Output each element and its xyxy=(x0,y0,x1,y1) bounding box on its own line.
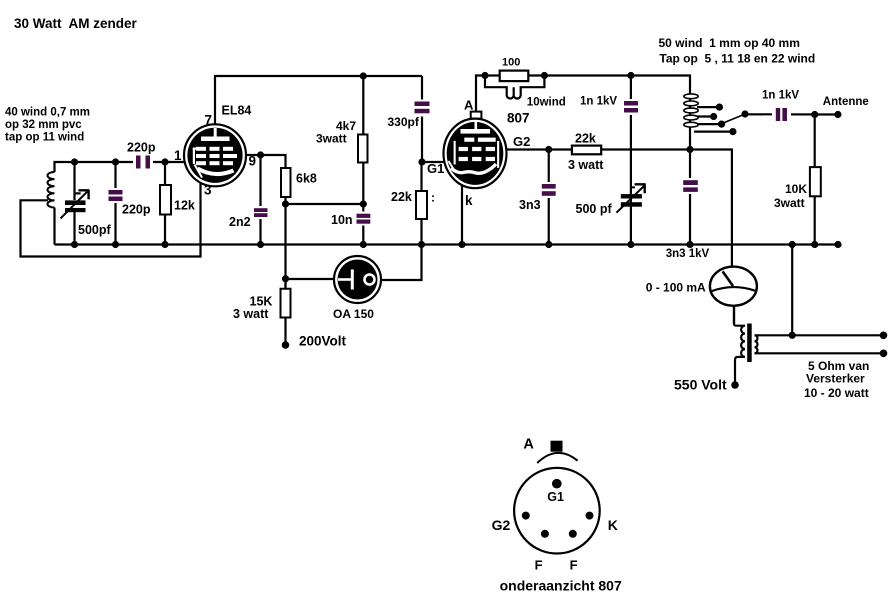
svg-text:F: F xyxy=(570,558,578,573)
svg-text:k: k xyxy=(465,193,473,208)
inductor L3 tank coil xyxy=(684,93,698,150)
wire: G2 line through 22k to tank bottom xyxy=(549,150,732,271)
capacitor C7 1n 1kV (plate bypass) xyxy=(630,76,632,196)
resistor R8 22k 3 watt xyxy=(572,146,601,155)
node: 550 Volt supply terminal xyxy=(731,381,739,389)
svg-text:7: 7 xyxy=(205,113,213,128)
capacitor C9 1n 1kV antenna coupling xyxy=(745,113,838,115)
key square xyxy=(551,441,563,452)
svg-text:3n3 1kV: 3n3 1kV xyxy=(666,248,710,260)
wire: 807 cathode k xyxy=(461,186,463,245)
switch SW1 tap selector xyxy=(723,114,745,123)
svg-text:3n3: 3n3 xyxy=(519,198,541,212)
svg-text:Versterker: Versterker xyxy=(806,372,865,386)
svg-text:2n2: 2n2 xyxy=(229,215,251,229)
svg-text:1n 1kV: 1n 1kV xyxy=(580,96,617,108)
svg-text:onderaanzicht 807: onderaanzicht 807 xyxy=(500,578,622,594)
base circle xyxy=(514,468,600,554)
wire: left tank bottom vertical xyxy=(53,208,55,245)
svg-text:10wind: 10wind xyxy=(527,97,566,109)
svg-text:9: 9 xyxy=(249,154,257,169)
svg-text:6k8: 6k8 xyxy=(296,172,317,186)
svg-text:A: A xyxy=(464,98,474,113)
svg-text:3: 3 xyxy=(204,183,212,198)
wire: top rail right to tank coil xyxy=(544,76,690,94)
node: speaker input terminals xyxy=(880,332,888,340)
svg-text:50 wind 1 mm op 40 mm: 50 wind 1 mm op 40 mm xyxy=(659,36,800,50)
svg-text:22k: 22k xyxy=(575,132,596,146)
svg-text:1n 1kV: 1n 1kV xyxy=(762,90,799,102)
wire: EL84 pin 9 xyxy=(246,155,286,168)
svg-text:500 pf: 500 pf xyxy=(576,202,613,216)
wire: OA150 left lead xyxy=(286,278,336,280)
diode D1 OA 150 xyxy=(334,256,381,303)
node: bus end terminal xyxy=(834,241,841,248)
svg-text:A: A xyxy=(523,437,534,453)
svg-text:3 watt: 3 watt xyxy=(233,307,269,321)
wire: bus to secondary top xyxy=(791,245,793,336)
resistor R7 10K 3watt xyxy=(814,115,816,245)
node: Antenne terminal xyxy=(834,111,841,118)
node xyxy=(71,158,78,165)
svg-text:G1: G1 xyxy=(427,161,444,176)
svg-text:EL84: EL84 xyxy=(222,104,252,118)
svg-text:10n: 10n xyxy=(331,213,353,227)
wire: G1 node to 807 xyxy=(422,161,445,163)
resistor R4 4k7 3watt xyxy=(362,76,364,204)
transformer T1 xyxy=(734,324,884,386)
pin G1 xyxy=(552,479,562,489)
svg-text:550 Volt: 550 Volt xyxy=(674,377,727,393)
svg-text:G2: G2 xyxy=(492,517,511,533)
node: pin9 junction xyxy=(257,151,264,158)
wire: 807 G2 lead xyxy=(505,148,549,150)
svg-text:10K: 10K xyxy=(785,182,807,196)
wire: coil tap to EL84 cathode xyxy=(21,183,201,257)
svg-text:10 - 20 watt: 10 - 20 watt xyxy=(804,386,869,400)
node: 200Volt terminal xyxy=(282,341,290,349)
svg-text:1: 1 xyxy=(174,148,182,163)
svg-text:500pf: 500pf xyxy=(78,223,111,237)
tube U1 EL84 xyxy=(184,124,246,186)
inductor L1 input coil xyxy=(47,172,54,208)
svg-text::: : xyxy=(431,191,435,205)
capacitor C2 220p shunt xyxy=(114,162,116,245)
wire: tank top rail to EL84 grid pin 1 xyxy=(55,162,185,172)
node xyxy=(161,158,168,165)
svg-text:30 Watt AM zender: 30 Watt AM zender xyxy=(14,16,138,31)
wire: node 6k8 bottom to 4k7/10n node xyxy=(286,203,364,205)
tube U2 807 xyxy=(444,112,507,189)
svg-text:22k: 22k xyxy=(391,190,412,204)
svg-text:220p: 220p xyxy=(122,203,151,217)
pin K xyxy=(586,512,594,520)
svg-text:807: 807 xyxy=(507,111,530,126)
svg-text:K: K xyxy=(608,517,618,533)
resistor R6 100 parasitic stopper xyxy=(485,74,544,76)
wire: down to OA150 node xyxy=(284,204,286,289)
resistor R1 12k xyxy=(164,162,166,245)
ground bus xyxy=(55,243,839,245)
svg-text:200Volt: 200Volt xyxy=(299,334,347,349)
capacitor C11 3n3 1kV xyxy=(689,150,691,245)
svg-text:12k: 12k xyxy=(174,199,195,213)
capacitor C6 330pf coupling xyxy=(421,76,423,162)
svg-text:3watt: 3watt xyxy=(316,132,347,146)
variable capacitor C1 500pf xyxy=(75,162,81,200)
svg-text:Antenne: Antenne xyxy=(823,96,869,108)
svg-text:F: F xyxy=(535,558,543,573)
pin F left xyxy=(541,530,549,538)
wire: 807 anode top cap lead xyxy=(476,76,485,113)
variable capacitor C8 500 pf xyxy=(630,195,632,245)
resistor R2 6k8 xyxy=(284,168,286,204)
key arc xyxy=(537,453,577,463)
svg-text:G2: G2 xyxy=(513,134,530,149)
svg-text:220p: 220p xyxy=(127,141,156,155)
pin G2 xyxy=(522,512,530,520)
wire: coil taps xyxy=(697,106,719,108)
svg-text:0 - 100 mA: 0 - 100 mA xyxy=(646,281,706,295)
node xyxy=(112,158,119,165)
capacitor C5 10n xyxy=(362,204,364,245)
resistor R5 22k grid leak xyxy=(381,162,422,280)
capacitor C4 2n2 xyxy=(259,155,261,245)
svg-text:3 watt: 3 watt xyxy=(568,158,604,172)
resistor R3 15K 3 watt xyxy=(284,279,286,345)
meter M1 0-100mA xyxy=(732,267,734,324)
node G1 of 807 xyxy=(418,158,425,165)
svg-text:3watt: 3watt xyxy=(774,196,805,210)
svg-text:40 wind 0,7 mm: 40 wind 0,7 mm xyxy=(5,107,90,119)
svg-text:100: 100 xyxy=(502,57,520,69)
svg-text:330pf: 330pf xyxy=(388,115,420,129)
inductor L2 10wind parasitic choke xyxy=(485,76,544,99)
svg-text:tap op 11 wind: tap op 11 wind xyxy=(5,132,84,144)
svg-text:OA 150: OA 150 xyxy=(333,307,374,321)
wire: EL84 anode to top rail xyxy=(215,76,422,130)
svg-text:G1: G1 xyxy=(547,490,564,504)
pin F right xyxy=(569,530,577,538)
capacitor C3 220p series xyxy=(133,153,153,171)
capacitor C10 3n3 xyxy=(548,150,550,245)
svg-text:Tap op 5 , 11 18 en 22 wind: Tap op 5 , 11 18 en 22 wind xyxy=(659,52,815,66)
socket diagram: 807 base bottom view xyxy=(514,441,600,554)
svg-text:op 32 mm pvc: op 32 mm pvc xyxy=(5,119,82,131)
